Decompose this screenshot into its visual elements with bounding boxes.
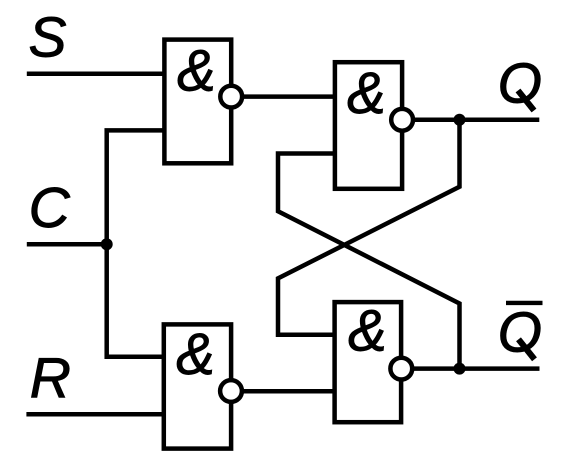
NAND gate U3 (bottom-left) — [164, 322, 231, 449]
node Q junction — [454, 114, 466, 126]
svg-text:S: S — [28, 6, 66, 70]
node C junction — [101, 238, 113, 250]
label R — [30, 346, 71, 410]
wire U1 output to U2 input — [242, 94, 335, 99]
inverter bubble U4 output — [390, 358, 412, 380]
wire C vertical branch — [107, 130, 165, 356]
svg-text:&: & — [347, 61, 386, 126]
NAND gate U4 (bottom-right) — [335, 298, 402, 422]
inverter bubble U1 output — [220, 86, 242, 108]
wire feedback Qbar to U2 input — [278, 154, 460, 369]
svg-text:O: O — [498, 51, 542, 115]
svg-text:&: & — [177, 39, 216, 104]
wire C input — [27, 242, 107, 247]
label C — [29, 176, 71, 240]
wire feedback Q to U4 input — [278, 120, 460, 335]
svg-text:R: R — [30, 346, 71, 410]
inverter bubble U2 output — [391, 109, 413, 131]
label Qbar — [498, 301, 543, 365]
svg-text:O: O — [498, 301, 542, 365]
NAND gate U2 (top-right) — [335, 61, 402, 189]
inverter bubble U3 output — [220, 380, 242, 402]
svg-text:&: & — [348, 298, 387, 363]
label S — [28, 6, 66, 70]
wire Q output — [413, 118, 539, 123]
wire R input — [26, 412, 163, 417]
node Qbar junction — [454, 363, 466, 375]
svg-text:C: C — [29, 176, 71, 240]
NAND gate U1 (top-left) — [164, 39, 231, 164]
wire S input — [27, 72, 165, 77]
wire Qbar output — [412, 366, 539, 371]
label Q — [498, 51, 542, 115]
wire U3 output to U4 input — [242, 389, 335, 394]
svg-text:&: & — [176, 322, 215, 387]
